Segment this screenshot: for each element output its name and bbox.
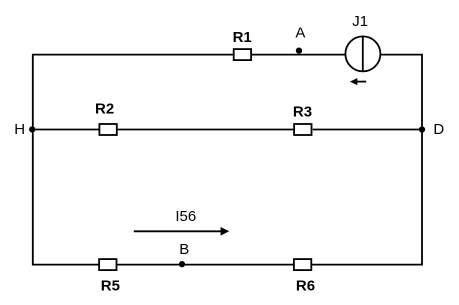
wire R2 to R3 — [118, 129, 294, 131]
node H — [14, 121, 35, 138]
wire R5 to bottom-left corner up to H — [33, 130, 99, 265]
resistor R2 — [95, 100, 117, 135]
svg-text:B: B — [179, 241, 189, 258]
svg-text:H: H — [14, 121, 25, 138]
resistor R3 — [293, 103, 312, 135]
wire J1 to top-right corner down to D — [381, 55, 422, 130]
node A — [295, 24, 305, 53]
svg-text:R6: R6 — [296, 277, 315, 294]
svg-text:R2: R2 — [95, 100, 114, 117]
wire R3 to D — [313, 129, 422, 131]
svg-text:R5: R5 — [101, 277, 120, 294]
wire H to R2 — [33, 129, 99, 131]
svg-text:J1: J1 — [352, 13, 368, 30]
node D — [419, 121, 445, 138]
resistor R5 — [99, 259, 120, 294]
wire top-left segment to R1 — [33, 55, 234, 130]
wire R1 to J1 — [252, 54, 345, 56]
resistor R1 — [233, 29, 252, 60]
wire R6 to node B — [182, 264, 294, 266]
svg-text:I56: I56 — [175, 208, 196, 225]
svg-text:R1: R1 — [233, 29, 252, 46]
current source J1 — [345, 13, 380, 85]
wire right vertical D to bottom-right corner to R6 — [312, 130, 422, 265]
resistor R6 — [294, 259, 315, 294]
wire node B to R5 — [117, 264, 182, 266]
svg-text:A: A — [295, 24, 305, 41]
svg-text:D: D — [433, 121, 444, 138]
svg-text:R3: R3 — [293, 103, 312, 120]
node B — [179, 241, 189, 267]
current arrow I56 — [134, 208, 229, 235]
